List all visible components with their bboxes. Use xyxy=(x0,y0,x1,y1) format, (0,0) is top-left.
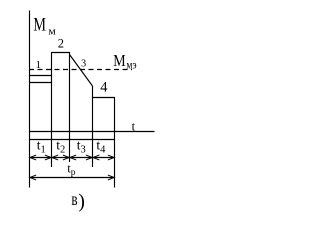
svg-text:): ) xyxy=(78,191,85,213)
svg-text:м: м xyxy=(48,27,56,38)
svg-text:мэ: мэ xyxy=(126,57,136,71)
svg-text:t: t xyxy=(132,120,136,134)
svg-text:4: 4 xyxy=(100,79,108,95)
svg-text:1: 1 xyxy=(35,59,41,71)
svg-text:в: в xyxy=(71,189,77,209)
svg-text:М: М xyxy=(33,16,46,36)
svg-text:2: 2 xyxy=(58,37,64,51)
svg-text:М: М xyxy=(113,51,126,70)
svg-text:3: 3 xyxy=(81,59,86,70)
